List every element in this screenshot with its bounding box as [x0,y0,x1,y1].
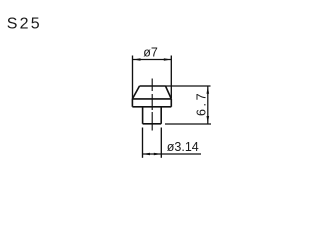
part stem right edge [160,107,162,124]
dimension 6.7 arrowhead top [207,86,210,93]
part flange bottom edge [132,106,171,108]
part stem left edge [142,107,144,124]
svg-text:ø7: ø7 [143,45,158,59]
dimension ø7 dimension line [133,59,171,61]
dimension ø7 arrowhead right [164,58,171,61]
svg-text:6.7: 6.7 [195,91,209,116]
dimension 6.7 extension line bottom [165,123,211,125]
dimension 6.7 arrowhead bottom [207,116,210,123]
dimension ø7 extension line right [170,56,172,99]
part stem bottom edge [143,123,162,125]
part flange left edge [131,99,133,107]
dimension 6.7 dimension line [207,86,209,123]
part head trapezoid left slant [132,86,139,99]
dimension 6.7 extension line top [166,85,211,87]
dimension ø7 arrowhead left [133,58,140,61]
dimension ø3.14 dimension line [143,153,202,155]
dimension ø3.14 arrowhead right [154,153,161,156]
svg-text:ø3.14: ø3.14 [167,140,199,154]
part flange right edge [170,99,172,107]
vertical centerline [151,79,153,131]
part head trapezoid top edge [140,85,166,87]
part head trapezoid right slant [166,86,172,99]
svg-text:S25: S25 [7,16,42,33]
dimension ø3.14 arrowhead left [143,153,150,156]
dimension ø3.14 extension line right [160,128,162,158]
dimension ø3.14 extension line left [142,128,144,158]
part flange top edge [132,98,171,100]
dimension ø7 extension line left [132,56,134,100]
